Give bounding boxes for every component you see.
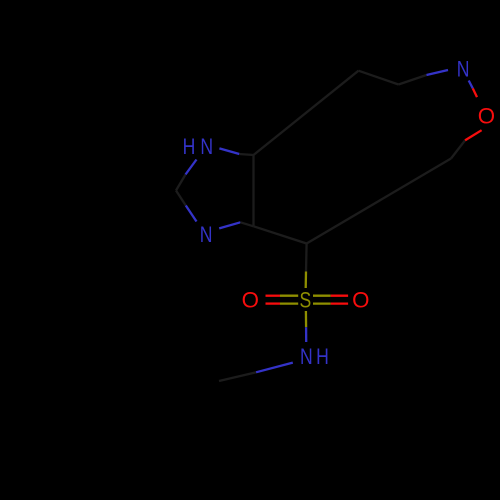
svg-text:N: N	[200, 223, 213, 247]
wire Csulf-S (carbon half)	[305, 244, 308, 272]
wire C2-N3 (carbon half)	[176, 191, 186, 206]
wire Csulf-S (sulfur half)	[305, 272, 308, 289]
wire N1-C4 (blue half)	[219, 148, 239, 154]
svg-text:O: O	[352, 287, 369, 312]
wire N1-C4 (carbon half)	[239, 154, 253, 155]
wire N3-C5 (blue half)	[219, 222, 240, 228]
wire N2-O1 (red half)	[473, 88, 477, 97]
wire N1-C2 (carbon half)	[176, 175, 186, 191]
wire Csulf-C5	[254, 226, 307, 243]
wire S-Ns (sulfur half)	[305, 311, 308, 327]
wire O1-C7a (red half)	[465, 130, 482, 140]
wire N3-C5 (carbon half)	[240, 222, 253, 226]
svg-text:S: S	[299, 288, 311, 312]
wire Ns-CH3 (carbon half)	[219, 372, 256, 381]
svg-text:O: O	[478, 103, 495, 128]
wire O1-C7a (carbon half)	[451, 140, 465, 158]
svg-text:O: O	[242, 287, 259, 312]
wire C3-N2 (carbon half)	[399, 75, 427, 85]
wire N1-C2 (blue half)	[186, 160, 197, 175]
svg-text:N: N	[457, 57, 470, 81]
wire C2-N3 (blue half)	[186, 206, 197, 222]
wire C4-C5	[252, 155, 254, 226]
wire C4-W chain	[254, 71, 359, 155]
svg-text:N: N	[200, 135, 213, 159]
wire W-C3	[359, 71, 399, 85]
svg-text:H: H	[316, 345, 329, 369]
svg-text:H: H	[183, 135, 196, 159]
wire S-Ns (blue half)	[305, 327, 307, 342]
wire Ns-CH3 (blue half)	[256, 363, 293, 373]
wire N2-O1 (blue half)	[469, 81, 473, 89]
S=O right double bond	[313, 295, 331, 297]
S=O left double bond	[280, 295, 298, 297]
svg-text:N: N	[300, 345, 313, 369]
wire C7a-Csulf chain	[307, 159, 451, 244]
wire C3-N2 (blue half)	[427, 70, 449, 75]
